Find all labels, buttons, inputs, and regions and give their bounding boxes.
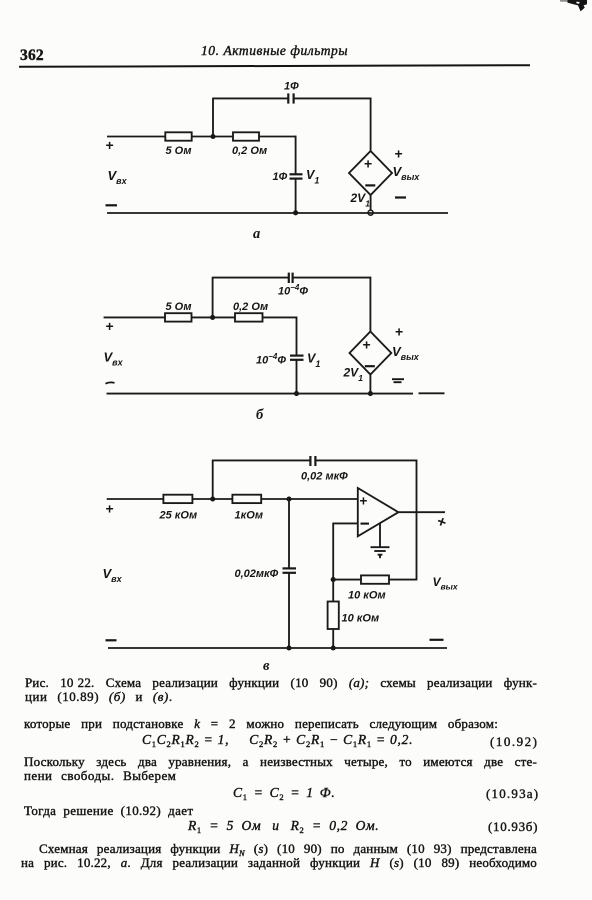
running head xyxy=(201,43,348,59)
wire: node to feedback resistor (в) xyxy=(333,579,361,581)
op-amp U1 triangle (в) xyxy=(358,488,399,536)
svg-text:+: + xyxy=(434,513,448,532)
node: vertical resistor on bottom rail (в) xyxy=(331,645,336,650)
svg-text:5 Ом: 5 Ом xyxy=(166,145,192,157)
dependent source 2V1 diamond (б) xyxy=(350,332,392,375)
svg-text:Vвых: Vвых xyxy=(393,164,421,182)
label − output (a) xyxy=(395,196,406,198)
resistor 0,2 Ом (a) xyxy=(233,132,259,140)
svg-text:+: + xyxy=(395,146,403,162)
wire: feedback top left segment (в) xyxy=(212,459,311,461)
wire: feedback riser from node (в) xyxy=(212,460,214,499)
svg-text:10 кОм: 10 кОм xyxy=(348,590,386,602)
svg-text:10−4Ф: 10−4Ф xyxy=(278,283,308,298)
svg-text:Vвых: Vвых xyxy=(433,575,459,592)
wire: shunt cap to bottom rail (a) xyxy=(295,179,297,213)
page number xyxy=(20,47,44,65)
wire: shunt cap to bottom rail (б) xyxy=(296,360,298,393)
node: shunt cap on bottom rail (б) xyxy=(294,391,299,396)
svg-text:+: + xyxy=(106,318,114,334)
wire: node to vertical resistor (в) xyxy=(332,580,334,602)
node: shunt cap on bottom rail (в) xyxy=(286,645,291,650)
equation 10.93b xyxy=(188,818,379,834)
wire: shunt cap riser (в) xyxy=(288,499,290,568)
node: shunt cap on bottom rail (a) xyxy=(293,210,298,215)
wire: source bottom to rail (a) xyxy=(370,195,372,210)
label − inside source (a) xyxy=(365,184,375,186)
label − input (a) xyxy=(106,204,118,206)
paragraph: Поскольку xyxy=(24,755,537,770)
svg-text:+: + xyxy=(363,337,371,353)
svg-text:0,02мкФ: 0,02мкФ xyxy=(235,568,279,580)
resistor 0,2 Ом (б) xyxy=(235,313,263,321)
wire: feedback drop to output node (в) xyxy=(416,460,418,580)
wire: input top rail (в) xyxy=(107,498,164,500)
svg-text:Vвх: Vвх xyxy=(103,566,123,584)
wire: feedback riser from node (a) xyxy=(212,98,214,136)
svg-text:25 кОм: 25 кОм xyxy=(159,510,198,522)
wire: feedback riser from node (б) xyxy=(212,278,214,318)
svg-text:Vвых: Vвых xyxy=(392,344,420,362)
wire: R2 to corner (б) xyxy=(263,316,298,318)
svg-text:+: + xyxy=(360,494,368,509)
dependent source 2V1 diamond (a) xyxy=(349,151,392,195)
resistor 5 Ом (б) xyxy=(165,313,192,321)
svg-text:0,2 Ом: 0,2 Ом xyxy=(232,145,267,157)
svg-text:+: + xyxy=(395,324,403,340)
label − op-amp input (в) xyxy=(361,523,370,525)
svg-text:+: + xyxy=(364,156,372,172)
paragraph: Схемная xyxy=(39,842,537,857)
label − output (б) xyxy=(392,379,404,382)
wire: bottom rail (б) xyxy=(107,393,414,395)
wire: vertical resistor to bottom rail (в) xyxy=(332,629,334,648)
header rule xyxy=(19,64,530,68)
equation 10.92 xyxy=(142,732,413,748)
capacitor 10^-4 Ф shunt (б) xyxy=(290,356,304,360)
svg-text:1Ф: 1Ф xyxy=(284,81,299,93)
svg-text:2V1: 2V1 xyxy=(343,366,364,384)
resistor 10 кОм feedback (в) xyxy=(361,575,389,583)
wire: R1 to R2 (в) xyxy=(192,498,232,500)
svg-text:+: + xyxy=(106,137,114,153)
svg-text:V1: V1 xyxy=(307,352,320,370)
svg-text:V1: V1 xyxy=(306,168,319,186)
resistor 1 кОм (в) xyxy=(232,495,261,503)
wire: inverting input stub (в) xyxy=(333,522,358,524)
svg-text:а: а xyxy=(253,226,260,242)
capacitor 0,02 мкФ feedback (в) xyxy=(310,456,315,466)
node: junction between resistors (б) xyxy=(210,315,215,320)
capacitor 0,02 мкФ shunt (в) xyxy=(283,568,297,572)
svg-text:2V1: 2V1 xyxy=(350,191,371,209)
capacitor 1Ф feedback (a) xyxy=(288,93,293,103)
wire: drop to source top (б) xyxy=(369,277,371,332)
paragraph: Тогда xyxy=(24,804,193,819)
paragraph: которые xyxy=(24,717,498,732)
wire: shunt cap to bottom rail (в) xyxy=(288,573,290,648)
wire: inverting input drop (в) xyxy=(332,523,334,580)
wire: drop to source top (a) xyxy=(370,98,372,152)
wire: op-amp output (в) xyxy=(398,511,445,513)
wire: R1 to node (a) xyxy=(192,136,233,138)
svg-text:Vвх: Vвх xyxy=(108,168,128,186)
node: feedback junction (в) xyxy=(331,577,336,582)
ground symbol (в) xyxy=(371,547,390,558)
svg-text:5 Ом: 5 Ом xyxy=(166,301,192,313)
node: junction at shunt cap (в) xyxy=(286,496,291,501)
svg-text:+: + xyxy=(106,501,114,517)
wire: corner down to shunt cap (б) xyxy=(296,317,298,355)
wire: feedback top right segment (a) xyxy=(294,97,372,99)
label − input (б) xyxy=(106,382,115,383)
resistor 10 кОм to ground (в) xyxy=(328,602,339,630)
wire: corner down to shunt cap (a) xyxy=(295,136,297,174)
svg-text:10−4Ф: 10−4Ф xyxy=(256,352,286,367)
wire: feedback resistor to output drop (в) xyxy=(389,579,417,581)
svg-text:б: б xyxy=(256,407,264,423)
wire: feedback top right segment (в) xyxy=(315,459,417,461)
wire: R2 to op-amp + input (в) xyxy=(261,498,358,500)
label − input (в) xyxy=(106,639,117,641)
wire: R1 to node (б) xyxy=(192,316,236,318)
node: open terminal on bottom rail (a) xyxy=(368,210,373,215)
capacitor 10^-4 Ф feedback (б) xyxy=(289,273,293,283)
wire: input top rail (б) xyxy=(104,316,165,318)
wire: feedback top left segment (a) xyxy=(212,97,288,99)
wire: ground stub from op-amp (в) xyxy=(379,523,381,548)
wire: source bottom to rail (б) xyxy=(369,375,371,394)
label − inside source (б) xyxy=(365,365,375,367)
svg-text:в: в xyxy=(263,658,270,670)
wire: feedback top right segment (б) xyxy=(293,277,372,279)
resistor 5 Ом (a) xyxy=(165,132,191,140)
node: junction between resistors (a) xyxy=(210,134,215,139)
figure caption line 1 xyxy=(25,676,537,691)
wire: input top rail (a) xyxy=(107,136,165,138)
equation 10.93a xyxy=(233,785,335,801)
scan artifact top right corner xyxy=(0,0,592,20)
resistor 25 кОм (в) xyxy=(163,495,192,503)
svg-text:1кОм: 1кОм xyxy=(235,510,264,522)
wire: feedback top left segment (б) xyxy=(212,277,289,279)
wire: bottom rail (a) xyxy=(107,212,448,214)
figure caption line 2 xyxy=(25,690,173,705)
node: source terminal on bottom rail (б) xyxy=(368,391,373,396)
capacitor 1Ф shunt (a) xyxy=(290,174,303,178)
node: junction after 25 кОм (в) xyxy=(210,496,215,501)
svg-text:10 кОм: 10 кОм xyxy=(342,613,380,625)
svg-text:1Ф: 1Ф xyxy=(273,171,288,183)
wire: R2 to corner (a) xyxy=(259,136,296,138)
svg-text:0,02 мкФ: 0,02 мкФ xyxy=(301,471,348,483)
svg-text:Vвх: Vвх xyxy=(104,350,124,368)
wire: bottom rail (в) xyxy=(108,647,447,649)
label − output (в) xyxy=(430,639,444,641)
wire: bottom rail end dash (б) xyxy=(419,392,445,394)
svg-text:0,2 Ом: 0,2 Ом xyxy=(233,301,268,313)
